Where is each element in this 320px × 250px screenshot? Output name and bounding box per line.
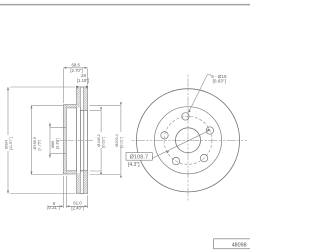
hat bottom wall [66, 171, 76, 174]
horizontal centerline [132, 139, 247, 141]
bolt circle (dashed) [164, 116, 212, 164]
section centerline [57, 139, 93, 141]
svg-text:[8.01"]: [8.01"] [119, 137, 123, 148]
hat circle [154, 107, 221, 174]
dimension braking surface ID (right inner) [90, 110, 102, 171]
svg-text:Ø196.9: Ø196.9 [33, 137, 37, 149]
hat top wall [66, 105, 76, 108]
bolt hole 1 (top) [182, 113, 189, 120]
vertical centerline [187, 75, 189, 203]
part number box [214, 239, 251, 249]
dimension hat depth 61.0 [66, 196, 87, 209]
hat face plate [63, 105, 66, 174]
svg-text:[1.18"]: [1.18"] [77, 78, 89, 83]
svg-text:[4.3"]: [4.3"] [128, 162, 140, 168]
svg-text:Ø168.2: Ø168.2 [97, 134, 101, 146]
bolt hole 3 (lower left) [172, 157, 179, 164]
dimension hat OD elbow [32, 105, 64, 174]
svg-text:[0.63"]: [0.63"] [213, 79, 226, 84]
centre bore circle [176, 128, 201, 153]
friction ring outline [77, 87, 88, 194]
svg-text:48098: 48098 [232, 243, 247, 249]
svg-text:Ø304: Ø304 [4, 140, 8, 149]
svg-text:[6.62"]: [6.62"] [101, 137, 105, 148]
svg-text:[0.31"]: [0.31"] [47, 205, 59, 210]
bolt circle diameter dimension diagonal [152, 130, 210, 158]
svg-text:28: 28 [81, 73, 86, 78]
dimension centre bore [50, 123, 66, 159]
section hatching [64, 87, 88, 193]
svg-text:[7.75"]: [7.75"] [38, 140, 42, 151]
outer circle [136, 89, 239, 192]
braking surface inner edges [80, 109, 87, 111]
dimension overall height 68.6 [63, 68, 87, 103]
bolt hole 4 (lower right) [200, 154, 207, 161]
svg-text:Ø108.7: Ø108.7 [130, 155, 149, 161]
dimension OD left [8, 87, 75, 194]
dimension hat thickness 8 [48, 176, 67, 208]
bolt holes leader 5-Ø16 [189, 75, 211, 113]
svg-text:[3.39"]: [3.39"] [55, 138, 59, 149]
top header rule [0, 4, 250, 6]
svg-text:[11.97"]: [11.97"] [9, 137, 13, 150]
bolt hole 5 (upper right) [206, 127, 213, 134]
bolt hole 2 (upper left) [161, 132, 168, 139]
dimension hat OD (right outer) [90, 105, 121, 174]
vent wall lines [79, 87, 81, 194]
bolt circle label box [126, 153, 152, 161]
svg-text:Ø86: Ø86 [51, 141, 55, 148]
svg-text:[2.40"]: [2.40"] [71, 206, 83, 211]
